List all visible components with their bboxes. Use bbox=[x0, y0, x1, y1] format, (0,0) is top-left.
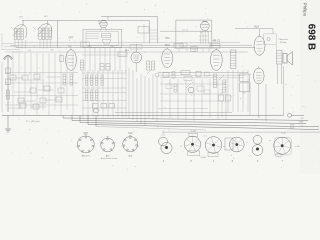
svg-text:zu: zu bbox=[269, 140, 271, 142]
svg-text:CF2: CF2 bbox=[165, 43, 170, 47]
svg-text:ABC1 Fu: ABC1 Fu bbox=[82, 154, 91, 157]
svg-text:24.9: 24.9 bbox=[290, 128, 294, 130]
svg-text:40: 40 bbox=[221, 93, 223, 95]
svg-text:Pickup: Pickup bbox=[280, 42, 287, 44]
svg-text:0,1: 0,1 bbox=[29, 50, 32, 52]
svg-text:AF7: AF7 bbox=[44, 15, 47, 18]
svg-text:220V: 220V bbox=[299, 121, 304, 123]
svg-text:12: 12 bbox=[180, 146, 182, 148]
svg-text:Ansicht von unten: Ansicht von unten bbox=[101, 157, 118, 160]
svg-text:A12: A12 bbox=[88, 45, 91, 48]
svg-text:C L 3: C L 3 bbox=[182, 29, 188, 31]
svg-text:CL4: CL4 bbox=[128, 133, 133, 135]
svg-text:CL-AB: CL-AB bbox=[190, 130, 196, 133]
svg-text:HF2: HF2 bbox=[165, 37, 170, 40]
svg-text:CL4: CL4 bbox=[203, 136, 206, 138]
svg-text:1M: 1M bbox=[51, 50, 54, 52]
svg-text:Ohne mit: Ohne mit bbox=[279, 38, 288, 41]
svg-text:AL4: AL4 bbox=[254, 24, 259, 28]
svg-text:zu Pkt: zu Pkt bbox=[295, 145, 301, 148]
svg-text:450: 450 bbox=[243, 93, 246, 95]
svg-text:9: 9 bbox=[247, 142, 248, 144]
svg-text:605: 605 bbox=[68, 46, 71, 48]
svg-text:zu 4: zu 4 bbox=[161, 135, 164, 137]
svg-text:zu: zu bbox=[223, 146, 225, 148]
svg-text:zu gn: zu gn bbox=[281, 133, 286, 135]
svg-text:250: 250 bbox=[110, 46, 113, 48]
svg-text:AB C1: AB C1 bbox=[213, 39, 221, 43]
svg-text:698 B: 698 B bbox=[306, 24, 317, 50]
svg-text:24.8: 24.8 bbox=[290, 125, 294, 127]
svg-text:CF-AB: CF-AB bbox=[200, 156, 206, 159]
svg-text:Philips: Philips bbox=[302, 3, 307, 17]
svg-text:CF7: CF7 bbox=[84, 133, 89, 135]
svg-text:CF7: CF7 bbox=[69, 35, 74, 39]
svg-text:4N7: 4N7 bbox=[19, 17, 22, 19]
svg-text:47 + (48 Linie): 47 + (48 Linie) bbox=[26, 121, 40, 123]
